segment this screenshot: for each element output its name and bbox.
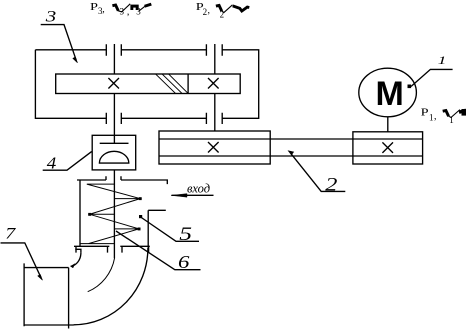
omega2 squiggle bbox=[216, 5, 249, 13]
inlet duct bottom bbox=[148, 209, 166, 211]
svg-text:1: 1 bbox=[449, 115, 454, 125]
svg-text:P: P bbox=[421, 106, 429, 118]
actuator box 4 bbox=[92, 135, 136, 170]
valve right wall bbox=[147, 210, 149, 248]
elbow outer arc bbox=[74, 248, 148, 325]
shaft 2 bar bbox=[159, 139, 423, 156]
motor shaft bbox=[387, 117, 389, 132]
svg-text:P: P bbox=[90, 0, 98, 12]
svg-text:,: , bbox=[102, 4, 105, 15]
omega3 squiggle bbox=[112, 4, 151, 12]
coupling cross right bbox=[382, 142, 393, 153]
diaphragm dome bbox=[99, 151, 128, 163]
gear block bar bbox=[56, 74, 241, 94]
spring zigzag bbox=[80, 184, 140, 244]
valve stem bbox=[113, 170, 115, 258]
svg-text:3: 3 bbox=[120, 7, 125, 17]
leader 7 arrowhead bbox=[38, 275, 43, 281]
svg-text:M: M bbox=[376, 75, 404, 113]
inner fillet arc bbox=[71, 253, 81, 267]
shaft 3 vertical (left) bbox=[113, 44, 115, 143]
leader 2 arrowhead bbox=[288, 151, 293, 155]
svg-text:7: 7 bbox=[5, 225, 16, 242]
inner fillet stub bbox=[75, 249, 81, 252]
omega1 squiggle bbox=[443, 109, 466, 117]
label P3 bbox=[90, 0, 105, 15]
gear divider line bbox=[187, 74, 189, 94]
chamber bottom flange left bbox=[74, 246, 109, 252]
shaft vertical (right output) bbox=[214, 44, 216, 131]
svg-text:5: 5 bbox=[179, 223, 192, 244]
stem guide arc (centerline) bbox=[88, 258, 115, 292]
svg-text:2: 2 bbox=[203, 7, 208, 17]
bearing cross right bbox=[208, 78, 219, 89]
svg-text:2: 2 bbox=[220, 9, 225, 19]
leader 5 dot bbox=[139, 215, 142, 218]
n3 subscripts bbox=[120, 6, 142, 17]
svg-text:6: 6 bbox=[178, 253, 190, 272]
diaphragm plate bbox=[100, 142, 129, 144]
svg-text:,: , bbox=[434, 111, 437, 122]
leader 3 bbox=[41, 25, 76, 61]
spring coil dots bbox=[88, 197, 142, 230]
coupling box left (on shaft 2) bbox=[159, 131, 270, 164]
svg-text:вход: вход bbox=[187, 181, 210, 195]
gearbox bottom seal ticks bbox=[106, 113, 222, 124]
svg-text:1: 1 bbox=[429, 112, 434, 122]
leader 2 bbox=[291, 154, 345, 192]
tank box 7 bbox=[24, 263, 74, 328]
motor circle U1 bbox=[359, 68, 417, 117]
svg-text:,: , bbox=[208, 5, 211, 16]
leader 6 bbox=[116, 231, 201, 270]
leader 4 bbox=[43, 152, 92, 171]
bearing cross left bbox=[108, 78, 119, 89]
svg-text:3: 3 bbox=[136, 7, 141, 17]
gearbox housing U3 outline bbox=[35, 50, 258, 119]
coupling cross left bbox=[208, 142, 219, 153]
spring frame top-left segment bbox=[77, 176, 106, 180]
leader 5 bbox=[141, 218, 199, 242]
svg-text:2: 2 bbox=[325, 174, 337, 195]
leader 1 dot bbox=[408, 85, 412, 89]
gearbox top seal ticks bbox=[106, 44, 222, 56]
leader 1 bbox=[411, 69, 453, 86]
coupling box right (on shaft 2) bbox=[353, 132, 423, 164]
svg-text:,: , bbox=[127, 6, 129, 17]
leader 7 bbox=[1, 243, 41, 277]
label P2 bbox=[196, 1, 210, 17]
svg-text:3: 3 bbox=[45, 8, 57, 26]
inner fillet arrowhead bbox=[71, 264, 75, 268]
worm hatch lines bbox=[156, 74, 188, 93]
spring frame top-right segment (inlet top) bbox=[121, 176, 167, 184]
inlet flow arrow bbox=[172, 194, 214, 196]
leader 3 arrowhead bbox=[73, 57, 78, 63]
chamber bottom flange right bbox=[120, 246, 150, 252]
label P1 bbox=[421, 106, 437, 122]
spring frame left wall bbox=[79, 180, 81, 246]
svg-text:1: 1 bbox=[438, 55, 447, 67]
svg-text:4: 4 bbox=[47, 153, 57, 172]
